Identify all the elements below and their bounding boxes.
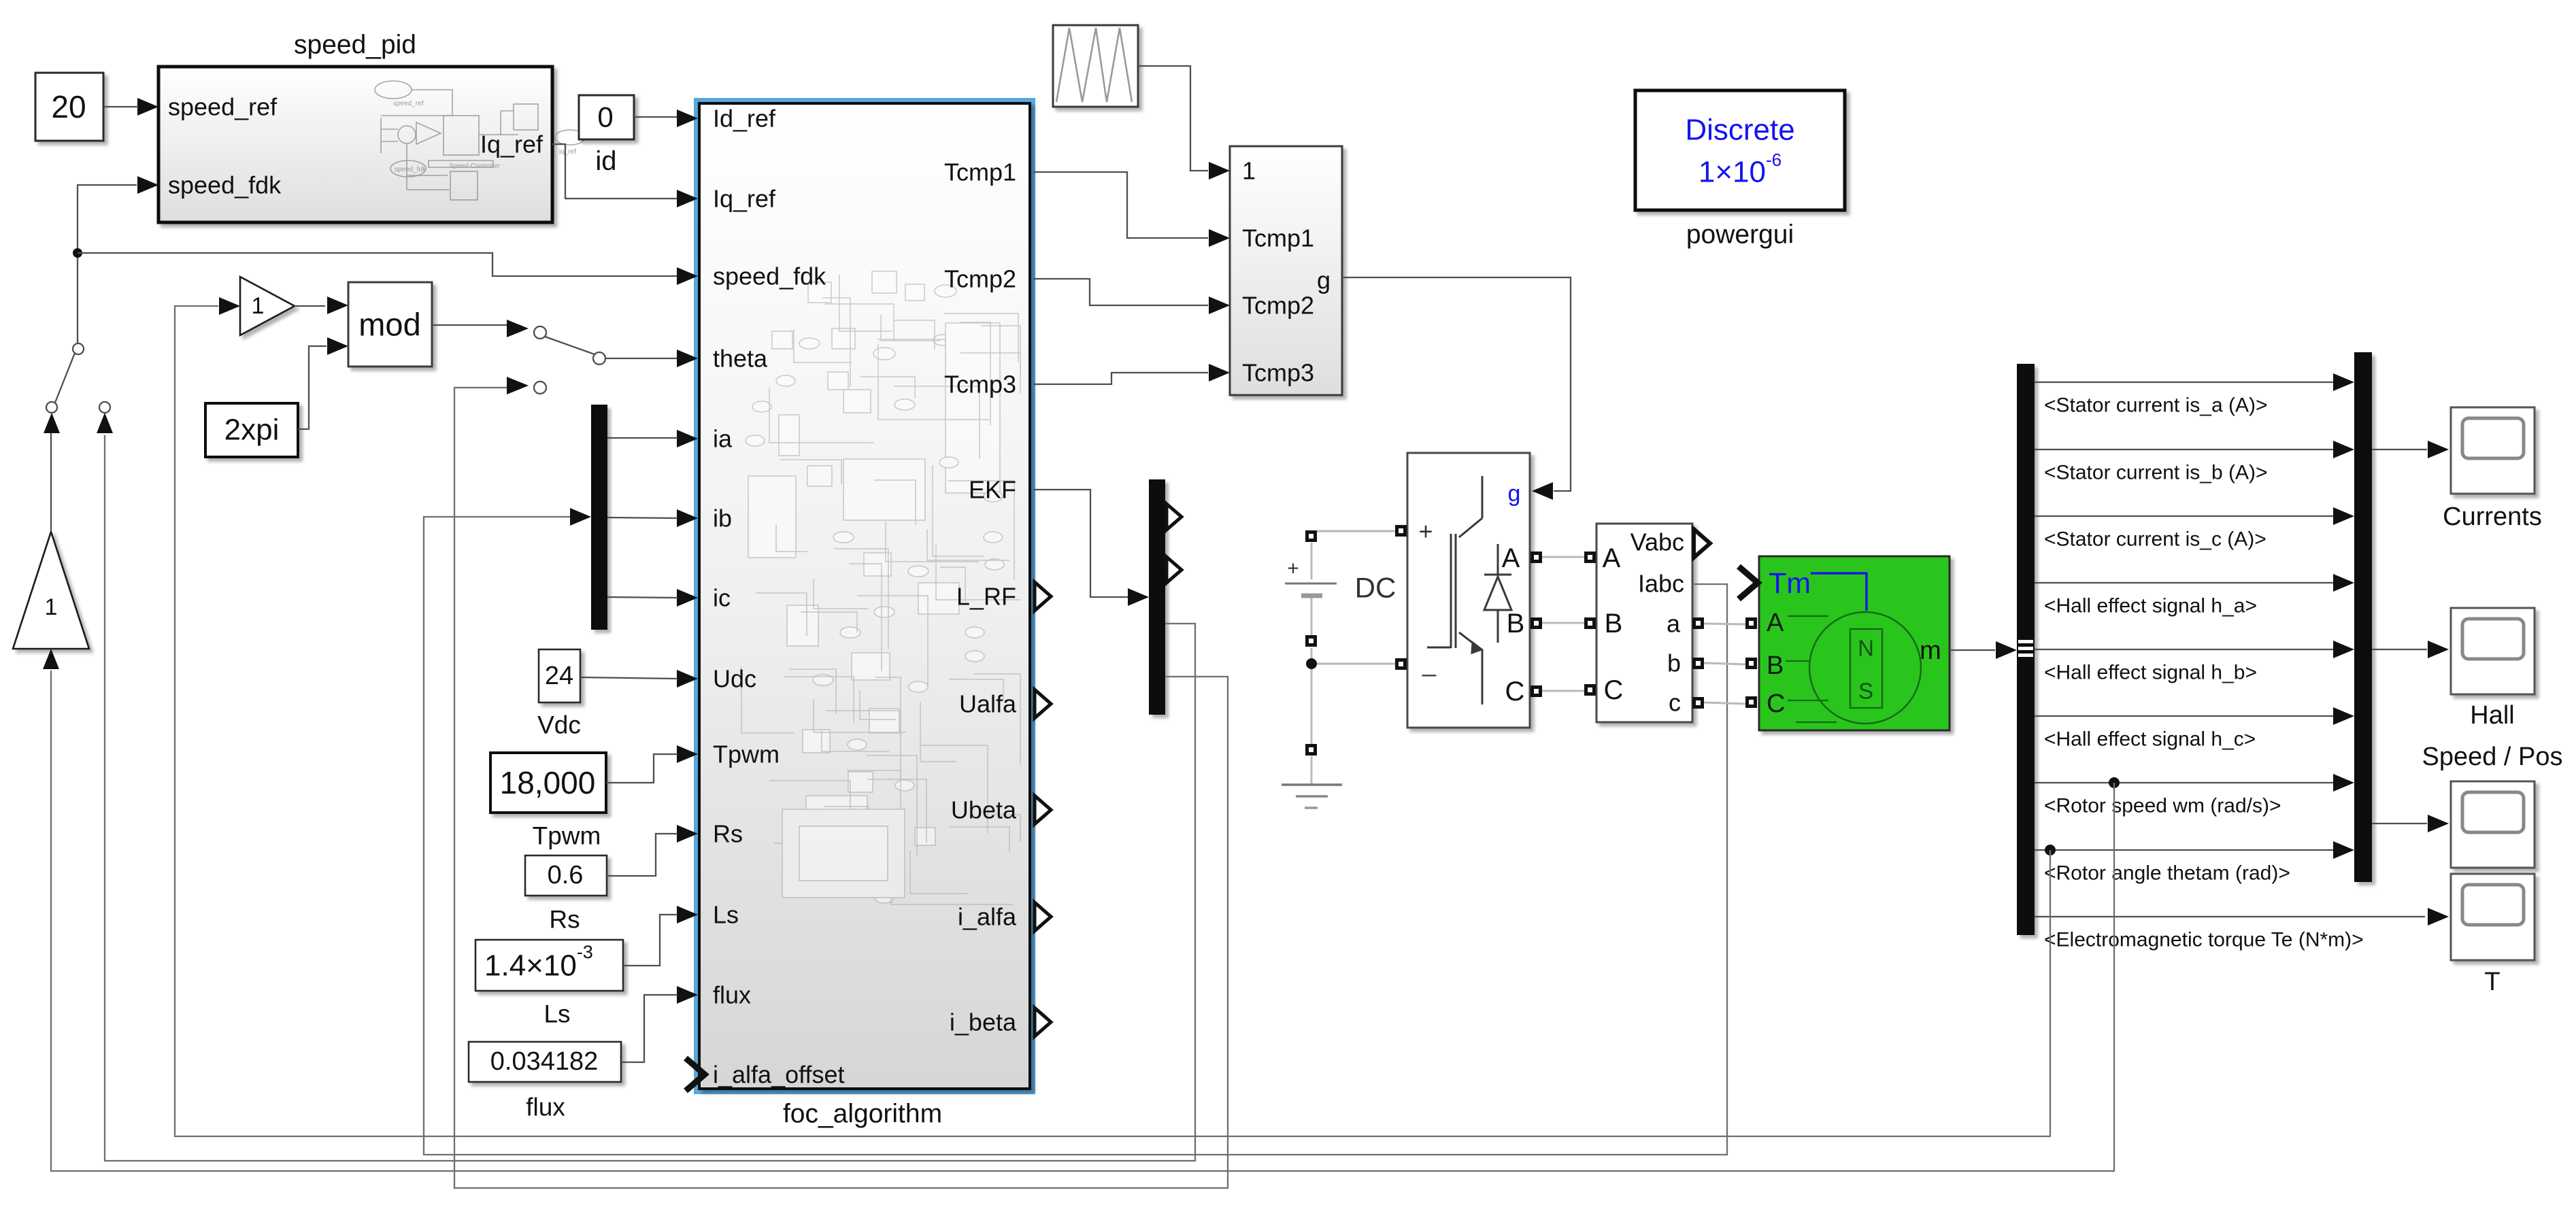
- wire EKF speed estimate feedback to switch: [105, 435, 1195, 1161]
- node rotor speed junction: [2109, 777, 2120, 788]
- repeating sequence block (sawtooth icon): [1053, 25, 1138, 107]
- switch contact right (from EKF speed): [97, 402, 113, 433]
- svg-text:a: a: [1667, 610, 1681, 638]
- svg-text:DC: DC: [1355, 572, 1396, 604]
- svg-text:Id_ref: Id_ref: [713, 105, 776, 133]
- wire measure c to motor C: [1704, 702, 1745, 704]
- gain block 1 (rotor angle): [219, 277, 295, 335]
- svg-text:Tcmp2: Tcmp2: [1242, 292, 1314, 320]
- foc input port Tpwm: [677, 741, 780, 768]
- wire 0 to Id_ref: [634, 116, 678, 118]
- constant block 1.4e-3 (Ls): [475, 940, 623, 1028]
- svg-text:Discrete: Discrete: [1685, 114, 1794, 147]
- block Tcmp mux subsystem: [1209, 146, 1342, 395]
- svg-text:<Hall effect signal h_b>: <Hall effect signal h_b>: [2044, 662, 2257, 684]
- svg-text:Udc: Udc: [713, 665, 756, 693]
- svg-text:foc_algorithm: foc_algorithm: [783, 1100, 942, 1129]
- signal wire Stator current is_a (A): [2035, 373, 2354, 417]
- signal wire Stator current is_b (A): [2035, 441, 2354, 484]
- svg-text:Iq_ref: Iq_ref: [480, 131, 543, 158]
- svg-text:<Stator current is_c (A)>: <Stator current is_c (A)>: [2044, 528, 2266, 551]
- wire motor m to bus selector: [1950, 641, 2017, 659]
- svg-text:Ubeta: Ubeta: [951, 796, 1017, 824]
- svg-text:Hall: Hall: [2470, 701, 2514, 730]
- svg-text:<Rotor speed wm (rad/s)>: <Rotor speed wm (rad/s)>: [2044, 795, 2281, 817]
- signal wire Stator current is_c (A): [2035, 507, 2354, 551]
- arrow into gain input: [43, 649, 59, 669]
- svg-text:mod: mod: [358, 307, 420, 343]
- foc input port flux: [677, 981, 751, 1009]
- svg-text:Ls: Ls: [543, 1000, 570, 1028]
- svg-text:powergui: powergui: [1686, 220, 1794, 250]
- svg-text:T: T: [2484, 968, 2500, 996]
- signal wire Hall effect signal h_a: [2035, 574, 2354, 617]
- svg-text:B: B: [1605, 609, 1623, 639]
- foc input port ic: [677, 584, 731, 612]
- svg-text:Tcmp2: Tcmp2: [944, 265, 1016, 293]
- svg-text:m: m: [1920, 637, 1941, 665]
- svg-text:Iabc: Iabc: [1638, 570, 1684, 598]
- svg-text:C: C: [1505, 677, 1525, 707]
- svg-text:Tpwm: Tpwm: [533, 822, 601, 850]
- svg-text:<Rotor angle thetam (rad)>: <Rotor angle thetam (rad)>: [2044, 862, 2290, 885]
- wire demux to ic: [607, 597, 678, 598]
- foc output port Ualfa: [959, 690, 1051, 718]
- wire DC- to bridge -: [1311, 663, 1395, 665]
- foc input port ia: [677, 425, 733, 453]
- manual switch speed (common contact): [55, 343, 84, 403]
- constant block 20: [35, 73, 103, 141]
- svg-text:20: 20: [51, 89, 86, 124]
- block speed_pid subsystem: [137, 31, 585, 223]
- svg-text:A: A: [1603, 543, 1621, 573]
- wire gain to mod: [295, 305, 325, 307]
- svg-text:+: +: [1287, 558, 1299, 580]
- svg-text:<Hall effect signal h_a>: <Hall effect signal h_a>: [2044, 595, 2257, 617]
- svg-text:+: +: [1418, 517, 1433, 545]
- constant block 2xpi: [205, 403, 298, 457]
- svg-text:speed_ref: speed_ref: [168, 93, 278, 121]
- block foc_algorithm subsystem: [696, 100, 1033, 1129]
- svg-text:24: 24: [545, 662, 573, 690]
- svg-text:S: S: [1858, 679, 1873, 704]
- signal wire Hall effect signal h_c: [2035, 707, 2354, 751]
- constant block 24 (Vdc): [537, 649, 581, 739]
- wire 24 to Udc: [580, 677, 678, 679]
- foc output port Tcmp3: [944, 371, 1016, 398]
- wire measure a to motor A: [1704, 624, 1745, 624]
- svg-text:Iq_ref: Iq_ref: [713, 185, 776, 213]
- svg-text:Tpwm: Tpwm: [713, 741, 780, 768]
- svg-text:g: g: [1317, 267, 1331, 294]
- svg-text:Speed Controller: Speed Controller: [449, 163, 501, 170]
- svg-text:B: B: [1767, 651, 1784, 680]
- svg-text:g: g: [1508, 481, 1521, 507]
- foc input port i_alfa_offset: [686, 1058, 844, 1091]
- foc_algorithm inner faded diagram: [741, 271, 1020, 904]
- svg-text:c: c: [1669, 689, 1681, 717]
- svg-text:1: 1: [45, 594, 58, 620]
- wire DC+ to bridge +: [1317, 530, 1395, 532]
- svg-text:Tm: Tm: [1769, 567, 1811, 600]
- svg-text:<Stator current is_b (A)>: <Stator current is_b (A)>: [2044, 462, 2267, 484]
- svg-text:ib: ib: [713, 505, 732, 532]
- foc input port theta: [677, 345, 768, 373]
- bus selector black bar: [2017, 364, 2035, 935]
- svg-text:Rs: Rs: [549, 906, 580, 934]
- manual switch theta contact 2: [507, 377, 546, 394]
- svg-text:flux: flux: [526, 1093, 565, 1121]
- switch contact left (from gain): [44, 402, 60, 433]
- mux scope bus black bar: [2354, 352, 2372, 882]
- svg-text:speed_ref: speed_ref: [393, 100, 424, 107]
- wire foc Tcmp3 to mux: [1033, 373, 1208, 384]
- foc output port Tcmp2: [944, 265, 1016, 293]
- wire EKF output to EKF demux: [1033, 490, 1149, 606]
- svg-text:i_alfa_offset: i_alfa_offset: [713, 1061, 844, 1089]
- foc input port Id_ref: [677, 105, 776, 133]
- svg-text:Tcmp1: Tcmp1: [1242, 224, 1314, 252]
- node rotor angle junction: [2045, 845, 2056, 855]
- wire demux to ib: [607, 517, 678, 518]
- svg-text:B: B: [1507, 609, 1525, 639]
- wire 20 to speed_ref: [103, 106, 138, 107]
- svg-text:<Electromagnetic torque Te (N*: <Electromagnetic torque Te (N*m)>: [2044, 929, 2364, 951]
- DC voltage source: [1285, 530, 1396, 756]
- arrow into demux: [570, 508, 591, 526]
- svg-text:<Hall effect signal h_c>: <Hall effect signal h_c>: [2044, 728, 2256, 751]
- svg-text:ic: ic: [713, 584, 731, 612]
- svg-text:iq_ref: iq_ref: [559, 148, 576, 156]
- wire rotor angle feedback to gain: [175, 306, 2050, 1136]
- wire bridge C to measure C: [1542, 690, 1584, 692]
- block universal bridge (inverter): [1395, 453, 1542, 728]
- wire EKF theta estimate feedback to theta switch: [454, 388, 1228, 1188]
- svg-text:0.6: 0.6: [548, 861, 584, 889]
- gain block 1 (rotor speed), pointing up: [13, 532, 89, 649]
- constant block 0 (id): [579, 95, 634, 176]
- wire bus to Speed scope: [2372, 815, 2449, 832]
- wire 0.6 to Rs: [607, 834, 678, 876]
- wire 18,000 to Tpwm: [606, 754, 678, 783]
- wire demux to ia: [607, 437, 678, 439]
- wire 2xpi to mod: [298, 346, 327, 429]
- constant block 0.6 (Rs): [525, 855, 607, 934]
- svg-text:ia: ia: [713, 425, 733, 453]
- foc input port speed_fdk: [677, 262, 826, 290]
- svg-text:18,000: 18,000: [500, 765, 596, 800]
- block PMSM motor (green): [1739, 556, 1950, 730]
- ground symbol: [1282, 756, 1342, 808]
- foc output port Tcmp1: [944, 158, 1016, 186]
- svg-text:i_alfa: i_alfa: [958, 903, 1017, 931]
- foc input port Udc: [677, 665, 756, 693]
- wire foc Tcmp2 to mux: [1033, 279, 1208, 305]
- foc input port Iq_ref: [677, 185, 776, 213]
- wire Iq_ref from speed_pid to foc: [552, 144, 678, 199]
- svg-text:Currents: Currents: [2443, 503, 2542, 531]
- scope T: [2451, 874, 2535, 996]
- demux EKF black bar: [1149, 479, 1182, 715]
- svg-text:Ls: Ls: [713, 901, 739, 929]
- wire theta switch to foc theta: [605, 358, 678, 359]
- svg-text:id: id: [595, 146, 616, 176]
- signal wire Hall effect signal h_b: [2035, 641, 2354, 684]
- svg-text:L_RF: L_RF: [956, 583, 1016, 611]
- wire Iabc to demux (feedback down): [424, 517, 1727, 1155]
- wire g output to bridge gate: [1342, 277, 1571, 500]
- svg-text:Tcmp3: Tcmp3: [944, 371, 1016, 398]
- foc input port ib: [677, 505, 732, 532]
- svg-text:theta: theta: [713, 345, 768, 373]
- foc output port i_beta: [950, 1008, 1051, 1036]
- svg-text:C: C: [1767, 690, 1785, 718]
- svg-text:_: _: [1422, 649, 1437, 677]
- wire bridge B to measure B: [1542, 622, 1584, 624]
- foc output port Ubeta: [951, 796, 1051, 824]
- signal wire Rotor angle thetam (rad): [2035, 841, 2354, 885]
- svg-text:speed_pid: speed_pid: [294, 31, 416, 60]
- svg-text:1: 1: [1242, 157, 1256, 185]
- node speed feedback junction: [73, 248, 82, 258]
- svg-text:speed_fdk: speed_fdk: [713, 262, 826, 290]
- wire 0.034182 to flux: [621, 995, 678, 1062]
- svg-text:EKF: EKF: [969, 476, 1016, 504]
- wire sawtooth to mux input 1: [1138, 66, 1208, 171]
- manual switch theta common contact: [593, 352, 605, 364]
- constant block 0.034182 (flux): [469, 1042, 621, 1121]
- demux Iabc black bar: [591, 405, 607, 630]
- wire 1.4e-3 to Ls: [623, 915, 678, 966]
- wire bridge A to measure A: [1542, 556, 1584, 558]
- svg-text:1: 1: [252, 293, 265, 319]
- wire gain output up to switch: [50, 433, 52, 532]
- wire foc Tcmp1 to mux: [1033, 172, 1208, 238]
- wire speed feedback to foc speed_fdk: [78, 253, 678, 276]
- block three-phase VI measurement: [1584, 524, 1710, 722]
- scope Speed/Pos: [2422, 743, 2562, 868]
- svg-text:A: A: [1767, 609, 1784, 637]
- foc output port i_alfa: [958, 902, 1051, 931]
- svg-text:Ualfa: Ualfa: [959, 690, 1017, 718]
- svg-text:0.034182: 0.034182: [490, 1047, 599, 1076]
- manual switch theta contact 1: [507, 320, 595, 354]
- svg-text:2xpi: 2xpi: [224, 413, 280, 447]
- foc output port EKF: [969, 476, 1016, 504]
- foc input port Ls: [677, 901, 739, 929]
- svg-text:Rs: Rs: [713, 820, 743, 848]
- scope Hall: [2451, 608, 2535, 730]
- svg-text:C: C: [1604, 675, 1624, 705]
- block powergui: [1635, 90, 1845, 250]
- wire speed feedback to speed_pid speed_fdk: [78, 185, 137, 343]
- svg-text:<Stator current is_a (A)>: <Stator current is_a (A)>: [2044, 394, 2267, 417]
- svg-text:i_beta: i_beta: [950, 1008, 1017, 1036]
- svg-text:Vabc: Vabc: [1630, 528, 1684, 556]
- svg-text:flux: flux: [713, 981, 751, 1009]
- svg-text:N: N: [1858, 636, 1874, 661]
- node DC- junction: [1306, 658, 1317, 669]
- wire bus to Hall scope: [2372, 641, 2449, 658]
- svg-text:b: b: [1667, 649, 1681, 677]
- svg-text:A: A: [1502, 543, 1520, 573]
- svg-text:Speed / Pos: Speed / Pos: [2422, 743, 2562, 771]
- svg-text:speed_fdk: speed_fdk: [395, 166, 426, 173]
- constant block 18,000 (Tpwm): [490, 753, 606, 850]
- signal wire Rotor speed wm (rad/s): [2035, 774, 2354, 817]
- svg-text:Tcmp3: Tcmp3: [1242, 359, 1314, 387]
- block mod: [327, 282, 432, 367]
- svg-text:Vdc: Vdc: [537, 711, 581, 739]
- foc output port L_RF: [956, 582, 1051, 611]
- wire measure b to motor B: [1704, 663, 1745, 664]
- svg-text:Tcmp1: Tcmp1: [944, 158, 1016, 186]
- scope Currents: [2443, 407, 2542, 531]
- signal wire Electromagnetic torque Te (N*m): [2035, 908, 2449, 951]
- wire bus to Currents scope: [2372, 441, 2449, 458]
- wire rotor speed feedback to gain: [51, 671, 2114, 1171]
- wire mod output to theta switch: [432, 324, 507, 326]
- foc input port Rs: [677, 820, 743, 848]
- svg-text:speed_fdk: speed_fdk: [168, 171, 282, 199]
- svg-text:0: 0: [597, 101, 613, 133]
